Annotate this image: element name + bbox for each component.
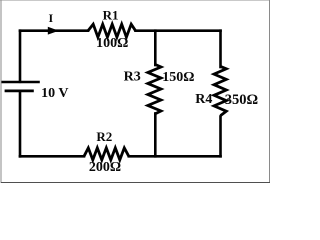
wire: left vertical lower (19, 91, 22, 156)
svg-text:100Ω: 100Ω (96, 36, 128, 51)
wire: R3 branch lower (154, 114, 157, 157)
resistor R1 (88, 24, 136, 37)
label 150 ohm (162, 70, 194, 85)
frame right edge (269, 0, 271, 183)
label 10 V (41, 86, 68, 101)
svg-text:150Ω: 150Ω (162, 70, 194, 85)
svg-text:R3: R3 (124, 69, 141, 84)
current arrow I (48, 27, 59, 35)
svg-text:200Ω: 200Ω (89, 160, 121, 175)
label R4 (195, 92, 212, 107)
svg-text:R1: R1 (103, 8, 119, 23)
wire: right vertical lower (219, 117, 222, 157)
label R3 (124, 69, 141, 84)
wire: right vertical upper (219, 31, 222, 67)
frame left edge (0, 0, 2, 183)
label 350 ohm (225, 92, 258, 108)
resistor R3 (148, 65, 161, 114)
battery V1 plate long (2, 81, 40, 84)
battery V1 plate short (5, 90, 34, 93)
resistor R4 (214, 66, 226, 115)
wire: top left segment (20, 29, 88, 32)
resistor R2 (84, 148, 129, 160)
label 200 ohm (89, 160, 121, 175)
wire: bottom right segment (129, 155, 221, 158)
wire: R3 branch upper (154, 31, 157, 65)
svg-text:R4: R4 (195, 92, 212, 107)
label R1 (103, 8, 119, 23)
svg-text:I: I (48, 11, 53, 25)
wire: top right segment (136, 29, 221, 32)
wire: left vertical upper (19, 31, 22, 82)
label 100 ohm (96, 36, 128, 51)
label R2 (96, 129, 112, 144)
frame top edge (0, 0, 270, 2)
svg-text:350Ω: 350Ω (225, 92, 258, 108)
svg-text:R2: R2 (96, 129, 112, 144)
label I (48, 11, 53, 25)
frame bottom edge (1, 182, 270, 184)
wire: bottom left segment (20, 155, 84, 158)
svg-text:10 V: 10 V (41, 86, 68, 101)
